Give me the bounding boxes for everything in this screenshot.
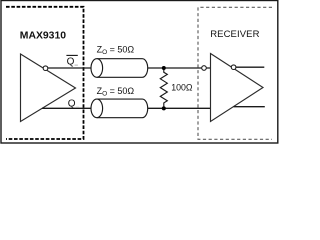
svg-text:Q: Q — [68, 99, 76, 110]
svg-text:MAX9310: MAX9310 — [20, 30, 66, 41]
inversion bubble on Q-bar output — [43, 66, 48, 71]
driver buffer U1 (MAX9310 output buffer) — [21, 54, 76, 122]
label Q-bar — [66, 55, 78, 67]
transmission line T2 (coax 50 ohm, bottom) — [91, 99, 148, 118]
receiver buffer U2 — [211, 54, 264, 122]
junction node bottom — [162, 106, 166, 110]
wire receiver complementary output (top) — [234, 66, 265, 68]
wire T2 to receiver input — [148, 107, 211, 109]
svg-text:Q: Q — [67, 56, 75, 67]
termination resistor RT 100 ohm — [160, 68, 167, 108]
IC boundary box MAX9310 (dashed) — [6, 7, 84, 139]
junction node top — [162, 66, 166, 70]
svg-text:RECEIVER: RECEIVER — [210, 29, 259, 40]
wire Q-bar output to T1 — [46, 67, 92, 69]
figure frame — [1, 1, 278, 144]
wire T1 to receiver input — [148, 67, 211, 69]
wire Q output to T2 — [42, 107, 91, 109]
svg-text:100Ω: 100Ω — [171, 82, 193, 92]
receiver boundary box (dashed) — [198, 7, 272, 139]
inversion bubble on receiver inverting input — [202, 66, 207, 71]
transmission line T1 (coax 50 ohm, top) — [91, 59, 148, 78]
label Q — [68, 99, 79, 110]
inversion bubble on receiver top output — [231, 65, 236, 70]
wire receiver true output (bottom) — [234, 106, 265, 108]
